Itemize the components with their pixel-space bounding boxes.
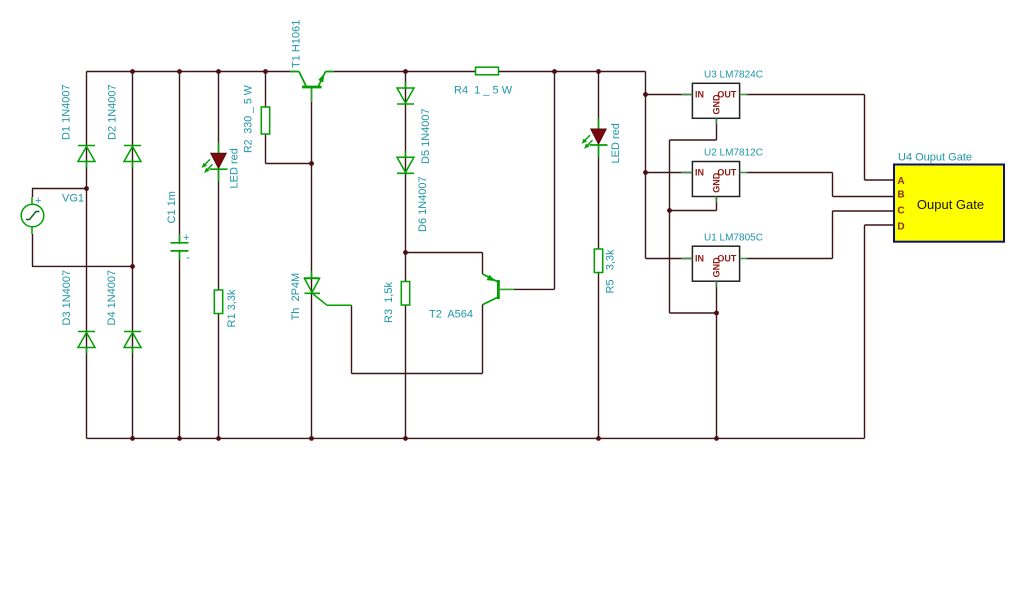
svg-text:D6 1N4007: D6 1N4007 — [417, 176, 429, 232]
svg-text:R3 1,5k: R3 1,5k — [383, 282, 395, 323]
svg-text:T2 A564: T2 A564 — [429, 309, 473, 321]
svg-text:IN: IN — [695, 254, 704, 264]
svg-text:D4 1N4007: D4 1N4007 — [106, 270, 118, 326]
svg-text:IN: IN — [695, 90, 704, 100]
svg-text:U2 LM7812C: U2 LM7812C — [704, 148, 763, 159]
svg-text:D5 1N4007: D5 1N4007 — [420, 108, 432, 164]
svg-text:U3 LM7824C: U3 LM7824C — [704, 69, 763, 80]
svg-text:+: + — [183, 232, 189, 244]
svg-text:U4 Ouput Gate: U4 Ouput Gate — [898, 151, 972, 163]
svg-text:A: A — [897, 176, 904, 187]
svg-text:LED red: LED red — [228, 148, 240, 188]
svg-text:B: B — [897, 190, 904, 201]
svg-text:+: + — [35, 195, 41, 207]
svg-text:D3 1N4007: D3 1N4007 — [61, 270, 73, 326]
svg-text:GND: GND — [711, 172, 721, 193]
svg-text:-: - — [186, 250, 190, 264]
svg-text:Ouput Gate: Ouput Gate — [917, 197, 984, 212]
svg-text:U1 LM7805C: U1 LM7805C — [704, 232, 763, 243]
svg-text:VG1: VG1 — [62, 193, 84, 205]
svg-text:C: C — [897, 206, 904, 217]
svg-text:GND: GND — [711, 257, 721, 278]
svg-text:D: D — [897, 222, 904, 233]
svg-text:R4 1 _ 5 W: R4 1 _ 5 W — [454, 85, 513, 97]
svg-text:LED red: LED red — [610, 123, 622, 163]
svg-text:T1 H1061: T1 H1061 — [291, 20, 303, 68]
svg-text:R2 330 _ 5 W: R2 330 _ 5 W — [242, 85, 254, 153]
svg-text:R5 3,3k: R5 3,3k — [604, 249, 616, 294]
svg-text:D2 1N4007: D2 1N4007 — [106, 84, 118, 140]
svg-text:Th 2P4M: Th 2P4M — [290, 273, 302, 321]
svg-text:D1 1N4007: D1 1N4007 — [60, 84, 72, 140]
svg-text:C1 1m: C1 1m — [166, 191, 178, 223]
svg-text:R1 3,3k: R1 3,3k — [226, 289, 238, 327]
svg-text:IN: IN — [695, 168, 704, 178]
svg-text:GND: GND — [711, 94, 721, 115]
